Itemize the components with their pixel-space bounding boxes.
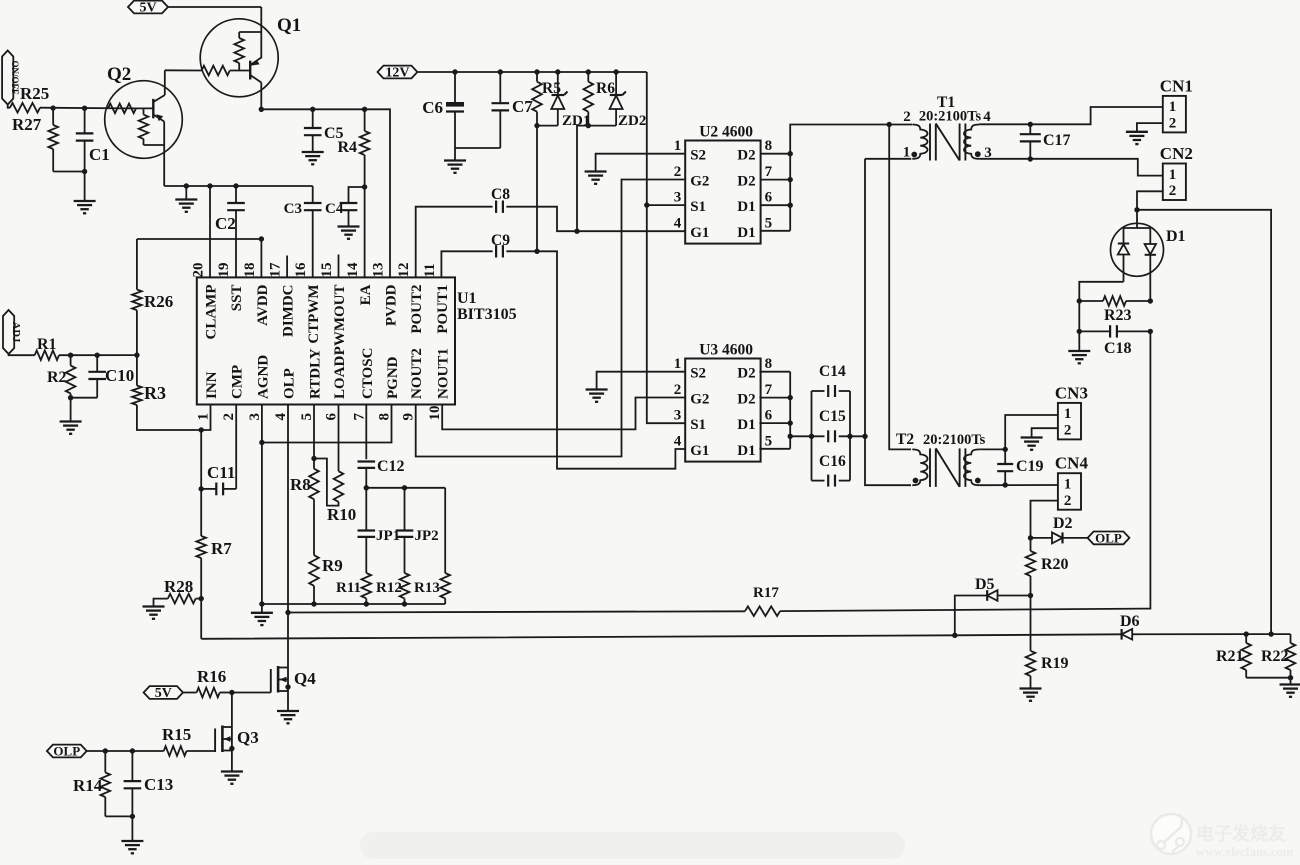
connector CN3 — [1055, 383, 1088, 439]
ground below R19 — [1020, 689, 1042, 701]
pin 16 CTPWM label (U1 top) — [293, 262, 322, 344]
power flag 5V (lower) — [144, 686, 197, 701]
svg-text:C19: C19 — [1016, 458, 1044, 475]
svg-text:S1: S1 — [690, 417, 706, 433]
svg-text:Q1: Q1 — [277, 15, 301, 36]
svg-text:1: 1 — [674, 138, 682, 154]
svg-text:OLP: OLP — [1095, 531, 1122, 546]
transformer T1 primary winding — [912, 125, 927, 159]
connector CN1 — [1160, 76, 1193, 132]
pin 6 LOAD label (U1 bottom) — [324, 355, 349, 420]
junction D2/R20 node — [1028, 535, 1033, 540]
junction R23 right — [1148, 298, 1153, 303]
wire R5/ZD1 node down to C9 net — [536, 126, 538, 252]
svg-text:C16: C16 — [819, 453, 846, 470]
svg-text:2: 2 — [1064, 423, 1072, 439]
svg-text:D1: D1 — [1166, 228, 1186, 245]
svg-text:R19: R19 — [1041, 655, 1069, 672]
svg-text:电子发烧友: 电子发烧友 — [1196, 823, 1286, 844]
transistor Q2 (NPN with internal bias resistor, circled) — [105, 64, 183, 186]
ground below Q4 — [277, 711, 299, 723]
capacitor C8 (POUT2 coupling) — [416, 186, 686, 277]
svg-text:9: 9 — [401, 413, 417, 421]
svg-text:C7: C7 — [512, 97, 533, 116]
junction JP2 node — [402, 485, 407, 490]
resistor R23 — [1079, 296, 1150, 324]
svg-text:R3: R3 — [144, 383, 166, 403]
resistor R7 — [196, 489, 232, 599]
wire bottom sense line (R7 net) — [201, 634, 1121, 639]
svg-text:4: 4 — [983, 109, 991, 125]
svg-text:CTPWM: CTPWM — [306, 285, 322, 344]
svg-text:U3 4600: U3 4600 — [699, 342, 753, 359]
svg-text:AGND: AGND — [255, 355, 271, 399]
capacitor C2 (on SST pin 19 line) — [215, 186, 245, 277]
junction AGND node — [259, 440, 264, 445]
wire 12V down to S1 pins — [647, 72, 685, 423]
capacitor C7 — [492, 72, 534, 148]
svg-text:R16: R16 — [197, 667, 226, 686]
svg-text:4: 4 — [273, 413, 289, 421]
wire CTOSC node east — [366, 487, 445, 489]
junction U2 S1 tap — [644, 202, 649, 207]
svg-text:11: 11 — [422, 263, 438, 277]
svg-text:C11: C11 — [207, 463, 235, 482]
ground below CN3 — [1021, 438, 1043, 450]
zener diode ZD1 — [537, 72, 590, 129]
wire R14 to C13 bottom — [105, 815, 132, 817]
resistor R2 — [47, 355, 75, 398]
svg-text:R17: R17 — [753, 585, 779, 601]
svg-text:CMP: CMP — [230, 365, 246, 399]
svg-text:POUT1: POUT1 — [435, 285, 451, 334]
diode D2 — [1031, 515, 1088, 543]
wire left rail to ground — [1078, 301, 1080, 351]
svg-text:7: 7 — [351, 413, 367, 421]
capacitor C11 (series to CMP) — [201, 405, 236, 496]
net flag OLP (bottom left) — [47, 744, 87, 759]
svg-text:1: 1 — [1064, 477, 1072, 493]
net flag ADJ — [3, 310, 21, 354]
svg-text:3: 3 — [674, 408, 682, 424]
junction R5 tap — [534, 69, 539, 74]
pin 15 PWMOUT label (U1 top) — [319, 263, 348, 356]
pin 15 PWMOUT stub (n/c) — [338, 255, 340, 278]
svg-text:D6: D6 — [1120, 613, 1140, 630]
svg-text:5V: 5V — [139, 1, 156, 16]
junction C11 node — [199, 486, 204, 491]
svg-text:6: 6 — [765, 408, 773, 424]
junction C5 tap — [310, 107, 315, 112]
svg-text:D5: D5 — [975, 576, 995, 593]
svg-text:D1: D1 — [737, 199, 755, 215]
svg-text:4: 4 — [674, 215, 682, 231]
wire U3 D2 pin 7 stub — [759, 397, 790, 399]
power flag 5V (top) — [128, 1, 168, 16]
capacitor C3 (on CTPWM pin 16 line) — [284, 186, 322, 277]
wire pin 20 CLAMP — [209, 186, 211, 277]
capacitor JP1 — [358, 488, 401, 573]
svg-text:8: 8 — [377, 413, 393, 421]
wire C-block left rail — [811, 391, 813, 481]
wire T2 secondary bottom to CN4 pin 1 — [979, 484, 1058, 486]
IC U2 4600 body — [674, 124, 773, 244]
ground below U3 S2 wire — [586, 390, 608, 402]
svg-text:C9: C9 — [491, 232, 510, 249]
resistor R20 — [1026, 538, 1069, 596]
junction C9/R5 net — [534, 249, 539, 254]
resistor R11 — [336, 573, 371, 604]
junction T2 secondary top node — [1003, 447, 1008, 452]
svg-text:3: 3 — [674, 190, 682, 206]
svg-text:RTDLY: RTDLY — [308, 348, 324, 399]
junction C-block to T1 pin1 net — [862, 434, 867, 439]
svg-text:U1: U1 — [457, 290, 477, 307]
junction U3 bus pin 7 — [788, 395, 793, 400]
capacitor C16 — [812, 453, 851, 487]
node R5/ZD1 — [534, 123, 539, 128]
svg-text:2: 2 — [903, 109, 911, 125]
wire U3 S2 pin 1 to ground — [597, 372, 686, 390]
svg-text:R14: R14 — [73, 776, 103, 795]
T1 pin 3 label and phase dot — [975, 145, 992, 161]
svg-text:20: 20 — [191, 263, 207, 278]
wire sense node to right edge — [1137, 210, 1271, 634]
capacitor C14 — [812, 363, 851, 397]
svg-text:R10: R10 — [327, 505, 356, 524]
svg-text:R20: R20 — [1041, 556, 1069, 573]
junction C10 tap — [95, 353, 100, 358]
wire AGND rail upper — [164, 185, 313, 187]
diode D6 — [1120, 613, 1246, 640]
junction R26 branch on AVDD line — [259, 236, 264, 241]
junction R6 tap — [586, 69, 591, 74]
wire AGND to PGND — [262, 405, 392, 443]
junction R22 bottom — [1288, 675, 1293, 680]
resistor R10 (LOAD pin 6 to pin5 node) — [314, 405, 356, 525]
wire R6/ZD2 node to U2 G1 wire — [577, 126, 588, 232]
junction D5 cathode tap — [952, 633, 957, 638]
junction C6 tap — [452, 69, 457, 74]
svg-text:C13: C13 — [144, 775, 173, 794]
resistor R17 — [745, 585, 780, 616]
wire R17 line left segment — [288, 611, 745, 612]
svg-text:ON/OFF: ON/OFF — [10, 61, 20, 95]
svg-text:OLP: OLP — [282, 368, 298, 399]
svg-text:R8: R8 — [290, 475, 311, 494]
resistor R12 — [376, 573, 409, 604]
svg-text:D1: D1 — [737, 417, 755, 433]
junction U3 bus pin 6 — [788, 420, 793, 425]
ground below C6 — [444, 148, 466, 173]
wire U3 D1 pin 6 stub — [759, 422, 790, 424]
wire CN2 pin 2 down to D1 — [1137, 191, 1163, 210]
svg-text:SST: SST — [229, 285, 245, 312]
junction C18 right — [1148, 329, 1153, 334]
svg-text:R4: R4 — [337, 139, 357, 156]
junction right-edge line bottom — [1268, 631, 1273, 636]
svg-text:5: 5 — [299, 413, 315, 421]
svg-text:U2 4600: U2 4600 — [699, 124, 753, 141]
capacitor C9 (POUT1 coupling) — [441, 232, 685, 469]
transformer T2 primary winding — [912, 449, 927, 485]
wire U2 D2 pin 8 stub — [761, 153, 791, 155]
transformer T1 secondary winding — [964, 125, 979, 159]
svg-text:D2: D2 — [737, 366, 755, 382]
wire R25 to Q2 base resistor — [40, 107, 136, 110]
T1 pin 2 label — [903, 109, 911, 125]
junction CN2/D1/current-sense node — [1134, 207, 1139, 212]
svg-text:1: 1 — [196, 413, 212, 421]
svg-text:8: 8 — [765, 356, 773, 372]
wire T1 secondary bottom — [979, 159, 1163, 176]
wire NOUT2 pin 9 to U2 G2 — [416, 180, 686, 457]
svg-text:AVDD: AVDD — [255, 284, 271, 326]
ground below C13 — [121, 841, 143, 853]
svg-text:1: 1 — [1169, 99, 1177, 115]
svg-text:ZD2: ZD2 — [618, 113, 646, 129]
junction R21 top — [1244, 631, 1249, 636]
svg-text:12V: 12V — [385, 66, 409, 81]
wire 12V rail — [417, 71, 646, 73]
svg-text:NOUT2: NOUT2 — [409, 348, 425, 399]
svg-text:R15: R15 — [162, 725, 191, 744]
mosfet Q4 (N-channel) — [232, 666, 316, 711]
pin 14 EA label (U1 top) — [345, 262, 374, 305]
svg-text:R11: R11 — [336, 580, 361, 596]
IC U1 BIT3105 body — [197, 277, 517, 404]
wire OLP to R15 — [87, 750, 164, 752]
wire CN1 pin 2 to ground — [1137, 123, 1163, 132]
svg-text:C3: C3 — [284, 201, 302, 217]
junction C17 bottom — [1028, 156, 1033, 161]
svg-text:R21: R21 — [1216, 648, 1244, 665]
wire U2 S2 pin 1 to ground — [596, 154, 686, 172]
junction U3 bus C-block tap — [788, 434, 793, 439]
connector CN4 — [1055, 454, 1089, 510]
pin 18 AVDD label (U1 top) — [242, 263, 271, 326]
junction C18 left — [1077, 329, 1082, 334]
junction C17 top — [1028, 122, 1033, 127]
svg-text:T2: T2 — [896, 431, 914, 448]
pin 12 POUT2 label (U1 top) — [396, 263, 425, 334]
svg-text:15: 15 — [319, 263, 335, 278]
svg-text:C14: C14 — [819, 363, 846, 380]
transformer T2 label — [896, 431, 986, 448]
junction R2 tap — [68, 353, 73, 358]
svg-text:PGND: PGND — [385, 356, 401, 399]
wire D1 left branch to R23/C18 left rail — [1079, 282, 1123, 301]
junction C7 tap — [498, 69, 503, 74]
junction R27 tap — [50, 105, 55, 110]
svg-text:18: 18 — [242, 263, 258, 278]
junction ZD2 tap — [613, 69, 618, 74]
svg-text:G2: G2 — [690, 174, 709, 190]
junction Q4 gate node — [229, 690, 234, 695]
watermark logo and text (elecfans) — [1151, 814, 1294, 859]
transformer T2 secondary winding — [964, 449, 979, 485]
wire T2 secondary top — [979, 448, 1005, 450]
svg-text:Q4: Q4 — [294, 669, 316, 688]
ground below Q3 — [221, 772, 243, 784]
capacitor C15 — [819, 408, 865, 442]
IC U3 4600 body — [674, 342, 773, 462]
resistor R16 — [197, 667, 232, 697]
T1 pin 4 label — [983, 109, 991, 125]
wire Q4 gate node to Q3 drain — [231, 693, 233, 728]
pin 8 PGND label (U1 bottom) — [377, 356, 402, 420]
T2 secondary phase dot — [975, 478, 981, 484]
junction C-block right rail — [847, 434, 852, 439]
svg-text:C15: C15 — [819, 408, 846, 425]
resistor R14 — [73, 751, 110, 816]
ground below R23/C18 — [1068, 351, 1090, 363]
resistor R22 — [1261, 634, 1295, 678]
svg-text:INN: INN — [204, 371, 220, 399]
wire T1 pin1 net down to T2 primary bottom — [865, 159, 911, 485]
svg-text:4: 4 — [674, 433, 682, 449]
junction INN node — [199, 427, 204, 432]
wire U2 S1 pin 3 — [647, 204, 685, 206]
ground left of R28 — [143, 599, 168, 619]
pin 4 OLP label (U1 bottom) — [273, 368, 298, 420]
resistor R8 — [290, 459, 319, 500]
svg-text:20:2100Ts: 20:2100Ts — [923, 432, 986, 448]
junction R4 tap — [362, 107, 367, 112]
svg-text:16: 16 — [293, 262, 309, 278]
svg-text:R13: R13 — [414, 580, 440, 596]
svg-text:C6: C6 — [422, 98, 443, 117]
ground below CN1 — [1126, 132, 1148, 144]
node R14/C13 — [130, 814, 135, 819]
capacitor JP2 — [396, 488, 439, 573]
capacitor C18 — [1079, 325, 1150, 357]
junction pin20 tap — [207, 183, 212, 188]
ground below rail — [251, 604, 273, 625]
svg-text:5V: 5V — [155, 686, 172, 701]
svg-text:R22: R22 — [1261, 648, 1289, 665]
junction ZD1 tap — [555, 69, 560, 74]
wire T1 primary bottom to junction column — [865, 158, 911, 160]
svg-text:EA: EA — [358, 284, 374, 305]
svg-text:OLP: OLP — [53, 744, 80, 759]
pin 1 INN label (U1 bottom) — [196, 371, 221, 420]
resistor R4 — [337, 109, 369, 187]
svg-text:6: 6 — [324, 413, 340, 421]
pin 11 POUT1 label (U1 top) — [422, 263, 451, 333]
svg-text:C10: C10 — [105, 366, 134, 385]
capacitor C1 — [76, 108, 110, 201]
svg-text:14: 14 — [345, 262, 361, 278]
zener diode ZD2 — [588, 72, 646, 129]
wire CN4 pin 2 down to D2 — [1031, 501, 1058, 538]
power flag 12V — [378, 66, 418, 81]
dual diode D1 (circled) — [1111, 210, 1186, 301]
resistor R25 — [10, 84, 49, 113]
resistor R1 — [35, 336, 59, 360]
svg-text:S2: S2 — [690, 366, 706, 382]
wire EA pin 14 — [364, 187, 366, 277]
junction pin5/R8/R10 node — [311, 456, 316, 461]
svg-text:JP2: JP2 — [415, 528, 439, 544]
junction R9 to ground rail — [311, 601, 316, 606]
svg-text:S2: S2 — [690, 148, 706, 164]
resistor R27 — [12, 108, 85, 171]
wire NOUT1 pin 10 to U3 G2 — [442, 398, 685, 430]
ground on upper AGND rail — [175, 186, 197, 212]
ground below C4 — [338, 227, 360, 239]
svg-text:C17: C17 — [1043, 132, 1071, 149]
svg-text:PVDD: PVDD — [384, 284, 400, 326]
junction C13 tap — [130, 748, 135, 753]
junction C-block left rail — [809, 434, 814, 439]
resistor R28 — [164, 577, 201, 603]
wire C6 to C7 bottom — [455, 147, 500, 149]
svg-text:BIT3105: BIT3105 — [457, 306, 517, 323]
capacitor C12 (CTOSC pin 7) — [358, 405, 405, 488]
wire ADJ to R1 — [9, 354, 35, 355]
wire AVDD pin18 line — [260, 239, 262, 277]
wire C-block right rail — [849, 391, 851, 481]
junction T1 primary top / T2 feed — [887, 122, 892, 127]
svg-text:Q3: Q3 — [237, 728, 259, 747]
resistor R13 — [414, 488, 450, 604]
svg-text:12: 12 — [396, 263, 412, 278]
capacitor C10 — [71, 355, 135, 398]
wire CN3 pin 2 to ground — [1032, 428, 1058, 437]
pin 5 RTDLY label (U1 bottom) — [299, 348, 324, 420]
watermark band (bottom centre) — [360, 832, 905, 859]
svg-text:13: 13 — [371, 263, 387, 278]
svg-text:C8: C8 — [491, 186, 510, 203]
wire R26 branch — [137, 238, 262, 240]
wire AGND down to ground rail — [261, 443, 263, 605]
svg-text:20:2100Ts: 20:2100Ts — [919, 109, 982, 125]
junction C1 tap — [82, 106, 87, 111]
svg-text:www.elecfans.com: www.elecfans.com — [1196, 845, 1294, 859]
ground below U2 S2 wire — [585, 172, 607, 184]
svg-text:6: 6 — [765, 190, 773, 206]
transformer T2 core — [930, 448, 965, 487]
junction ground rail left end — [259, 601, 264, 606]
wire R28 node down to sense line — [200, 599, 202, 639]
svg-text:CN3: CN3 — [1055, 383, 1088, 402]
svg-text:R1: R1 — [37, 336, 57, 353]
svg-text:C2: C2 — [215, 214, 236, 233]
svg-text:R27: R27 — [12, 115, 42, 134]
svg-text:R12: R12 — [376, 580, 402, 596]
capacitor C5 — [304, 109, 344, 152]
wire RTDLY pin 5 — [313, 405, 315, 459]
svg-text:R7: R7 — [211, 539, 232, 558]
svg-text:2: 2 — [1064, 493, 1072, 509]
svg-text:C1: C1 — [89, 145, 110, 164]
resistor R26 — [132, 239, 173, 355]
svg-text:ADJ: ADJ — [10, 322, 21, 342]
svg-text:CLAMP: CLAMP — [204, 285, 220, 340]
wire R21/R22 bottoms — [1246, 677, 1290, 679]
T1 pin 1 label and phase dot — [903, 145, 917, 161]
pin 17 DIMDC label (U1 top) — [268, 262, 297, 337]
svg-text:1: 1 — [1064, 406, 1072, 422]
junction CTOSC node — [364, 485, 369, 490]
junction U2 bus pin 7 — [788, 177, 793, 182]
wire to R22 — [1246, 633, 1290, 635]
junction U2 bus pin 8 — [788, 151, 793, 156]
pin 13 PVDD label (U1 top) — [371, 263, 400, 327]
svg-text:10: 10 — [427, 406, 443, 421]
capacitor C17 — [1020, 124, 1071, 159]
